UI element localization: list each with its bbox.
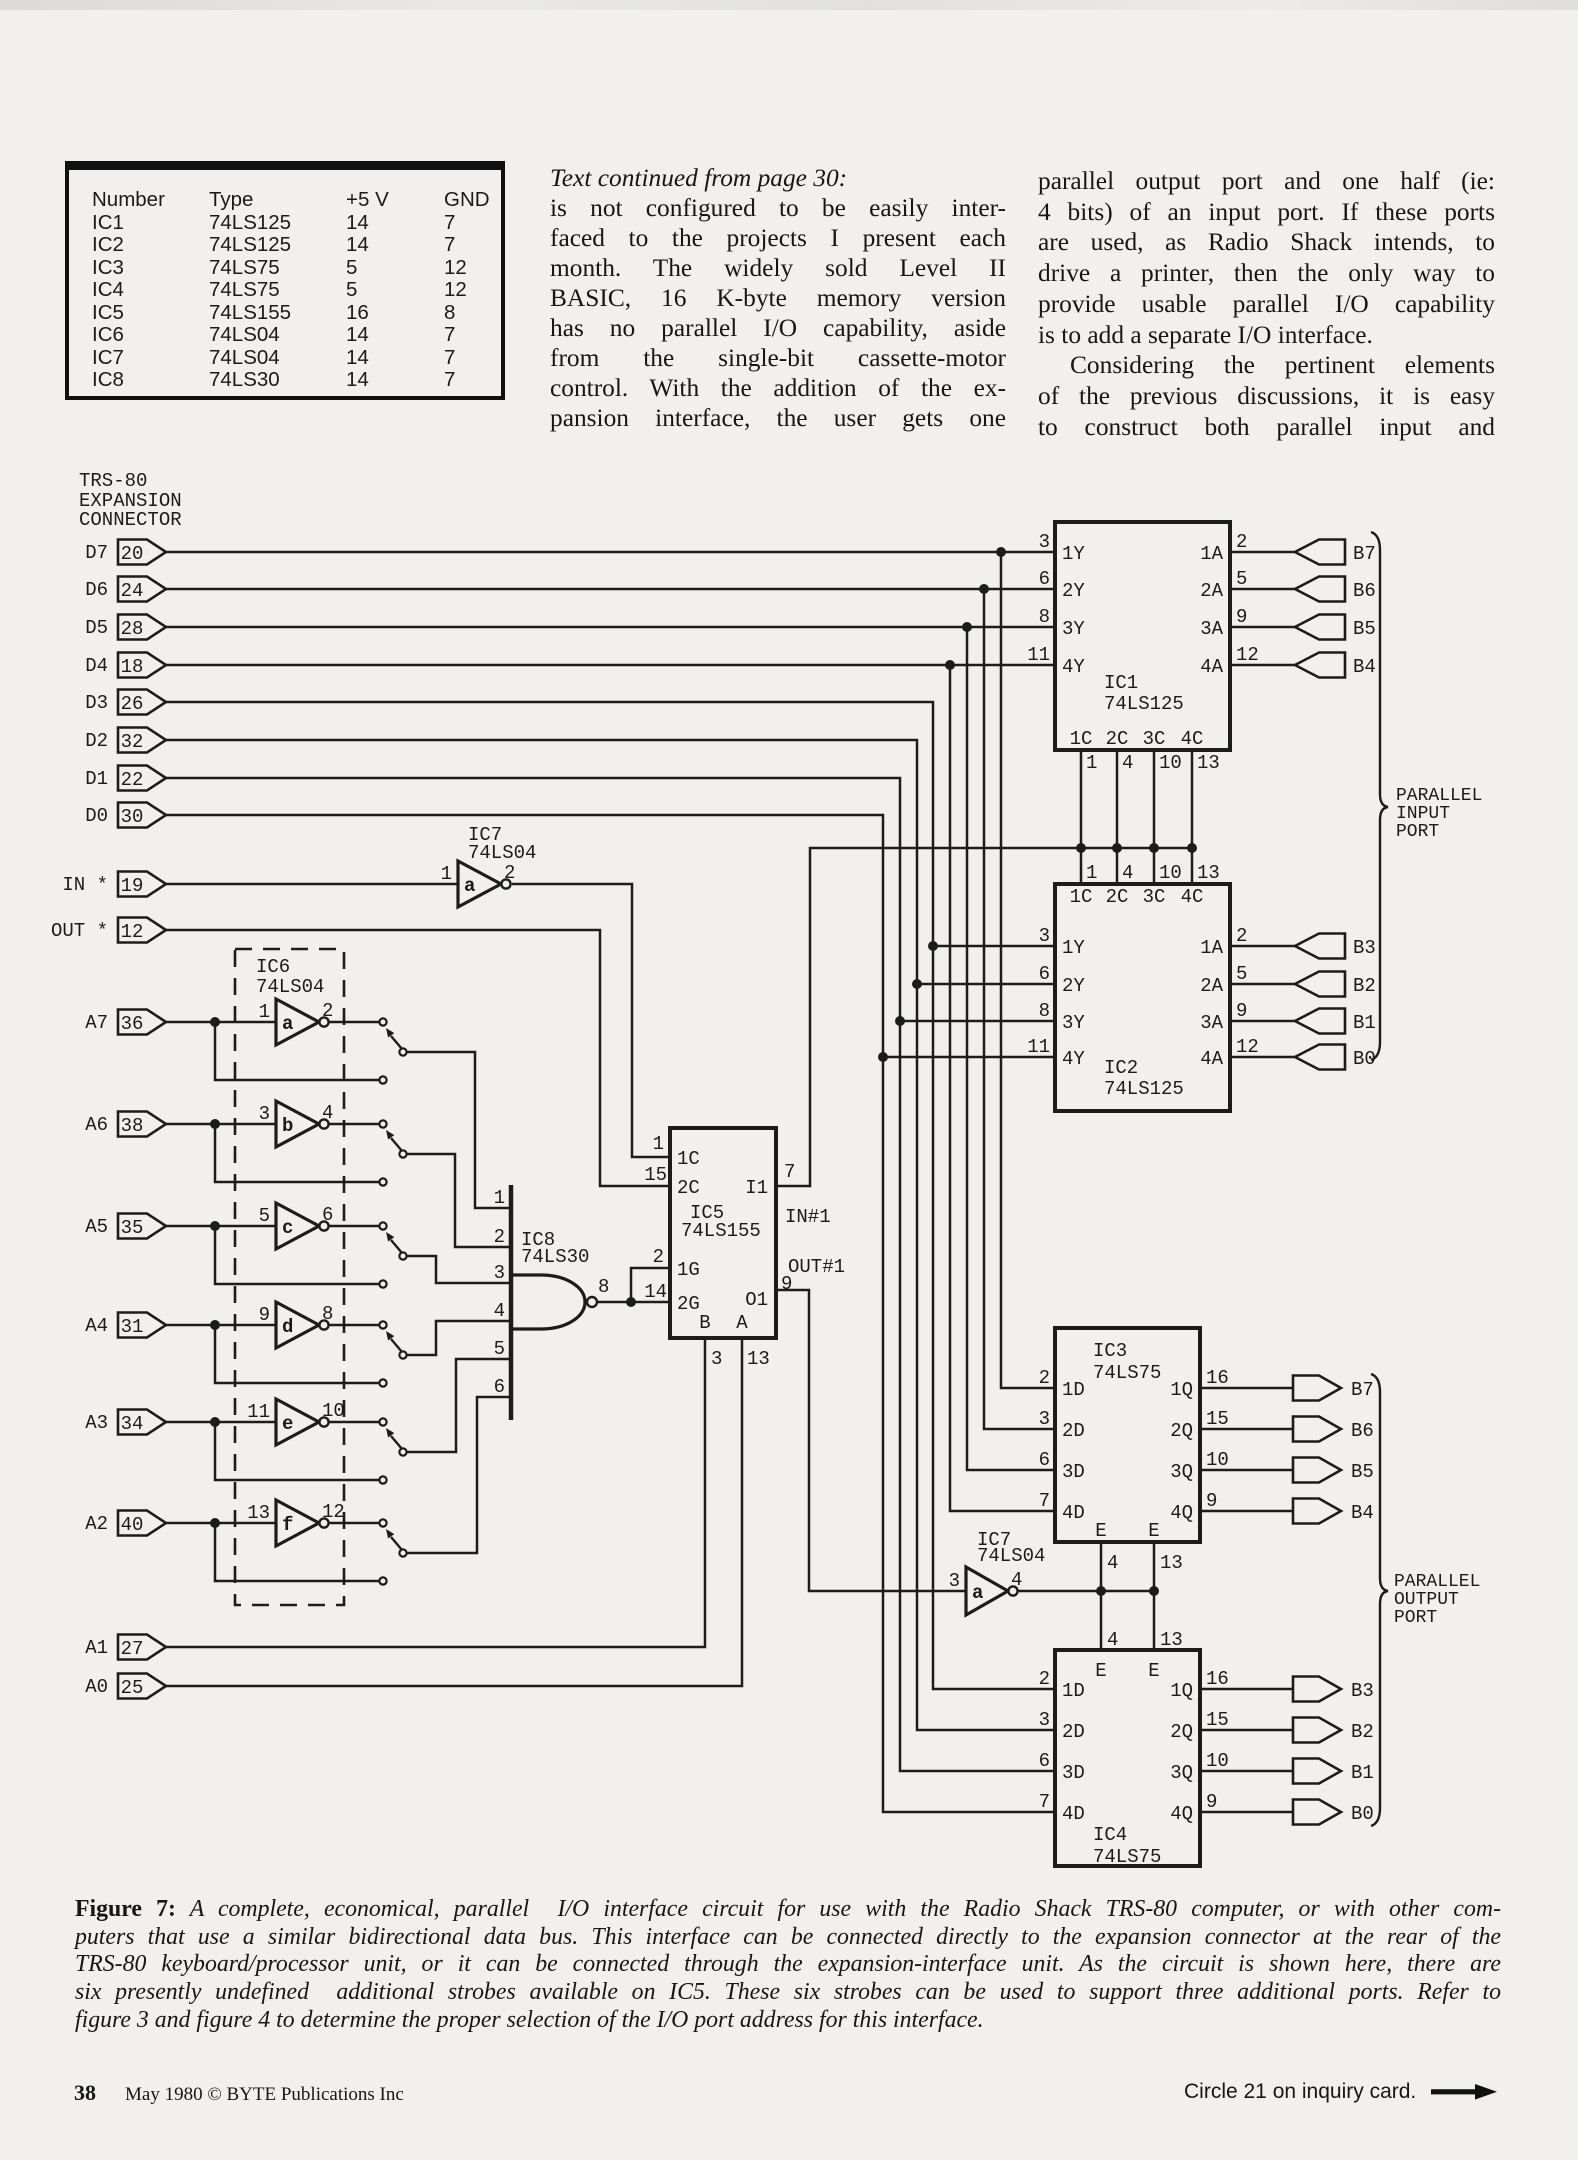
switch SA4 (select true/inverted address bit) [379, 1321, 406, 1386]
svg-text:9: 9 [1236, 606, 1247, 628]
svg-text:13: 13 [1197, 752, 1220, 774]
svg-text:2Q: 2Q [1170, 1420, 1193, 1442]
svg-text:D0: D0 [85, 805, 108, 827]
inverter IC7b (74LS04 section a, pins 3-4) [949, 1529, 1046, 1615]
svg-text:E: E [1095, 1660, 1106, 1682]
svg-text:2C: 2C [1106, 886, 1129, 908]
svg-text:D7: D7 [85, 542, 108, 564]
svg-text:c: c [282, 1217, 293, 1239]
svg-text:74LS75: 74LS75 [1093, 1362, 1161, 1384]
svg-text:24: 24 [121, 580, 144, 602]
svg-text:B4: B4 [1353, 656, 1376, 678]
svg-text:12: 12 [322, 1501, 345, 1523]
svg-text:1Y: 1Y [1062, 937, 1085, 959]
wire switch A6 common to IC8 pin 2 [406, 1154, 511, 1247]
svg-text:74LS04: 74LS04 [256, 976, 324, 998]
svg-text:10: 10 [322, 1400, 345, 1422]
svg-text:28: 28 [121, 618, 144, 640]
footer arrow [1431, 2082, 1501, 2107]
svg-text:4: 4 [1122, 862, 1133, 884]
net D6: connector to IC1 2Y and IC3 2D [166, 584, 1055, 1429]
svg-text:4: 4 [1011, 1569, 1022, 1591]
svg-text:74LS125: 74LS125 [1104, 693, 1184, 715]
switch SA3 (select true/inverted address bit) [379, 1418, 406, 1483]
svg-text:22: 22 [121, 769, 144, 791]
svg-text:3C: 3C [1143, 886, 1166, 908]
connector D6 pin 24 [85, 577, 166, 603]
wire IC4 4Q to B0 [1200, 1811, 1293, 1814]
svg-text:d: d [282, 1316, 293, 1338]
connector D4 pin 18 [85, 653, 166, 679]
svg-text:2A: 2A [1200, 975, 1223, 997]
wire IC4 3Q to B1 [1200, 1770, 1293, 1773]
svg-text:2: 2 [653, 1246, 664, 1268]
svg-text:74LS04: 74LS04 [468, 842, 536, 864]
switch SA2 (select true/inverted address bit) [379, 1519, 406, 1584]
inverter IC6b (74LS04 section b) [259, 1101, 334, 1147]
IC3 74LS75 (quad latch) [1039, 1328, 1229, 1542]
svg-text:74LS04: 74LS04 [977, 1545, 1045, 1567]
IC4 74LS75 (quad latch) [1039, 1650, 1229, 1868]
svg-text:5: 5 [259, 1205, 270, 1227]
svg-text:INPUT: INPUT [1396, 804, 1450, 824]
wire IC4 2Q to B2 [1200, 1729, 1293, 1732]
svg-text:74LS155: 74LS155 [681, 1220, 761, 1242]
connector D2 pin 32 [85, 728, 166, 754]
svg-text:4Y: 4Y [1062, 1048, 1085, 1070]
svg-text:IC6: IC6 [256, 956, 290, 978]
right text column [1038, 166, 1495, 442]
svg-text:B6: B6 [1353, 580, 1376, 602]
svg-text:B1: B1 [1353, 1012, 1376, 1034]
svg-text:4Y: 4Y [1062, 656, 1085, 678]
net A5: connector to inverter IC6c and bypass [166, 1221, 379, 1284]
net D2: connector to IC2 2Y and IC4 2D [166, 740, 1055, 1730]
svg-text:TRS-80: TRS-80 [79, 470, 147, 492]
net IC8 output to IC5 pins 14 (2G) and 2 (1G) [598, 1268, 670, 1307]
net D1: connector to IC2 3Y and IC4 3D [166, 778, 1055, 1771]
wire switch A7 common to IC8 pin 1 [406, 1052, 511, 1208]
net IN*-inverted to IC5 pin 1 (1C) [512, 884, 670, 1157]
svg-text:4D: 4D [1062, 1803, 1085, 1825]
svg-text:OUT *: OUT * [51, 920, 108, 942]
wire IC1 4A to B4 [1230, 664, 1295, 667]
svg-text:f: f [282, 1514, 293, 1536]
svg-text:2C: 2C [1106, 728, 1129, 750]
svg-text:15: 15 [644, 1164, 667, 1186]
svg-text:35: 35 [121, 1217, 144, 1239]
figure caption [75, 1896, 1501, 2035]
svg-text:IC1: IC1 [1104, 672, 1138, 694]
connector B1 (parallel input port) [1295, 1009, 1376, 1035]
wire IC3 2Q to B6 [1200, 1428, 1293, 1431]
svg-text:D2: D2 [85, 730, 108, 752]
svg-text:A1: A1 [85, 1637, 108, 1659]
net D3: connector to IC2 1Y and IC4 1D [166, 702, 1055, 1689]
svg-text:1: 1 [1086, 752, 1097, 774]
svg-text:8: 8 [322, 1303, 333, 1325]
svg-text:4: 4 [494, 1300, 505, 1322]
svg-text:10: 10 [1206, 1750, 1229, 1772]
svg-text:3: 3 [1039, 925, 1050, 947]
svg-text:2Y: 2Y [1062, 975, 1085, 997]
wire IN* connector to inverter IC7a [166, 883, 458, 886]
svg-text:B0: B0 [1351, 1803, 1374, 1825]
net A0 to IC5 pin 13 (A) [166, 1338, 742, 1686]
wire IC2 4A to B0 [1230, 1056, 1295, 1059]
connector B6 (parallel input port) [1295, 577, 1376, 603]
svg-text:1G: 1G [677, 1259, 700, 1281]
svg-text:6: 6 [1039, 568, 1050, 590]
svg-text:A4: A4 [85, 1315, 108, 1337]
svg-text:B5: B5 [1351, 1461, 1374, 1483]
label IN#1 [785, 1206, 831, 1228]
svg-text:9: 9 [1236, 1000, 1247, 1022]
svg-text:2Q: 2Q [1170, 1721, 1193, 1743]
wire IC3 3Q to B5 [1200, 1469, 1293, 1472]
svg-text:IN *: IN * [62, 874, 108, 896]
svg-text:3: 3 [1039, 531, 1050, 553]
svg-text:1: 1 [653, 1133, 664, 1155]
connector D3 pin 26 [85, 690, 166, 716]
svg-text:4A: 4A [1200, 1048, 1223, 1070]
IC5 74LS155 (dual 2-to-4 decoder) [644, 1128, 795, 1370]
svg-text:E: E [1148, 1520, 1159, 1542]
svg-text:1: 1 [1086, 862, 1097, 884]
svg-text:4: 4 [1107, 1552, 1118, 1574]
svg-text:a: a [464, 875, 475, 897]
connector A3 pin 34 [85, 1410, 166, 1436]
svg-text:2: 2 [1236, 531, 1247, 553]
label PARALLEL OUTPUT PORT [1394, 1572, 1480, 1628]
footer inquiry [1184, 2080, 1416, 2104]
wire switch A4 common to IC8 pin 4 [406, 1321, 511, 1355]
svg-text:4: 4 [1107, 1629, 1118, 1651]
connector D5 pin 28 [85, 615, 166, 641]
svg-text:B1: B1 [1351, 1762, 1374, 1784]
svg-text:4C: 4C [1181, 886, 1204, 908]
label IC6 74LS04 [256, 956, 324, 998]
net D5: connector to IC1 3Y and IC3 3D [166, 622, 1055, 1470]
scanned page top edge shading [0, 0, 1578, 10]
svg-text:D5: D5 [85, 617, 108, 639]
svg-text:A5: A5 [85, 1216, 108, 1238]
connector B0 (parallel output port) [1293, 1800, 1374, 1826]
connector B7 (parallel input port) [1295, 540, 1376, 566]
connector B5 (parallel output port) [1293, 1458, 1374, 1484]
svg-text:4Q: 4Q [1170, 1502, 1193, 1524]
svg-text:12: 12 [1236, 1036, 1259, 1058]
svg-text:12: 12 [121, 921, 144, 943]
svg-text:PARALLEL: PARALLEL [1396, 786, 1482, 806]
svg-text:3D: 3D [1062, 1461, 1085, 1483]
connector B0 (parallel input port) [1295, 1045, 1376, 1071]
switch SA6 (select true/inverted address bit) [379, 1120, 406, 1185]
net D7: connector to IC1 1Y and IC3 1D [166, 547, 1055, 1388]
svg-text:5: 5 [494, 1338, 505, 1360]
connector B4 (parallel output port) [1293, 1499, 1374, 1525]
net A7: connector to inverter IC6a and bypass [166, 1017, 379, 1080]
connector B2 (parallel output port) [1293, 1718, 1374, 1744]
wire IC1 1A to B7 [1230, 551, 1295, 554]
svg-text:13: 13 [1160, 1629, 1183, 1651]
svg-text:D3: D3 [85, 692, 108, 714]
inverter IC6c (74LS04 section c) [259, 1203, 334, 1249]
svg-text:1Q: 1Q [1170, 1680, 1193, 1702]
wire switch A5 common to IC8 pin 3 [406, 1256, 511, 1283]
svg-text:3: 3 [494, 1262, 505, 1284]
svg-text:1A: 1A [1200, 543, 1223, 565]
svg-text:PARALLEL: PARALLEL [1394, 1572, 1480, 1592]
svg-text:74LS125: 74LS125 [1104, 1078, 1184, 1100]
svg-text:2D: 2D [1062, 1721, 1085, 1743]
label OUT#1 [788, 1256, 845, 1278]
svg-text:1C: 1C [1070, 886, 1093, 908]
svg-text:8: 8 [1039, 1000, 1050, 1022]
svg-text:IC3: IC3 [1093, 1340, 1127, 1362]
svg-text:3A: 3A [1200, 618, 1223, 640]
connector A1 pin 27 [85, 1635, 166, 1661]
svg-text:2D: 2D [1062, 1420, 1085, 1442]
svg-text:2C: 2C [677, 1177, 700, 1199]
svg-text:E: E [1148, 1660, 1159, 1682]
svg-text:4C: 4C [1181, 728, 1204, 750]
svg-text:3: 3 [949, 1570, 960, 1592]
svg-text:1A: 1A [1200, 937, 1223, 959]
svg-text:40: 40 [121, 1514, 144, 1536]
svg-text:13: 13 [747, 1348, 770, 1370]
svg-text:1Q: 1Q [1170, 1379, 1193, 1401]
svg-text:16: 16 [1206, 1668, 1229, 1690]
net A6: connector to inverter IC6b and bypass [166, 1119, 379, 1182]
svg-text:3A: 3A [1200, 1012, 1223, 1034]
net A2: connector to inverter IC6f and bypass [166, 1518, 379, 1581]
svg-text:2G: 2G [677, 1293, 700, 1315]
svg-text:E: E [1095, 1520, 1106, 1542]
net OUT* to IC5 pin 15 (2C) [166, 930, 670, 1186]
svg-text:B7: B7 [1353, 543, 1376, 565]
connector B6 (parallel output port) [1293, 1417, 1374, 1443]
svg-text:4A: 4A [1200, 656, 1223, 678]
svg-text:14: 14 [644, 1281, 667, 1303]
switch SA7 (select true/inverted address bit) [379, 1018, 406, 1083]
svg-text:4: 4 [322, 1102, 333, 1124]
svg-text:7: 7 [784, 1161, 795, 1183]
svg-text:B3: B3 [1351, 1680, 1374, 1702]
label TRS-80 expansion connector [79, 470, 182, 531]
wire IC2 3A to B1 [1230, 1020, 1295, 1023]
svg-text:B4: B4 [1351, 1502, 1374, 1524]
brace parallel input port [1371, 532, 1388, 1060]
svg-text:15: 15 [1206, 1408, 1229, 1430]
svg-text:11: 11 [1027, 644, 1050, 666]
svg-text:34: 34 [121, 1413, 144, 1435]
svg-text:2: 2 [494, 1226, 505, 1248]
svg-text:18: 18 [121, 656, 144, 678]
svg-text:A0: A0 [85, 1676, 108, 1698]
svg-text:B6: B6 [1351, 1420, 1374, 1442]
svg-text:IN#1: IN#1 [785, 1206, 831, 1228]
wire IC2 2A to B2 [1230, 983, 1295, 986]
svg-text:2: 2 [1039, 1668, 1050, 1690]
svg-text:1: 1 [494, 1187, 505, 1209]
svg-text:a: a [282, 1013, 293, 1035]
svg-text:3Y: 3Y [1062, 618, 1085, 640]
brace parallel output port [1371, 1374, 1388, 1826]
svg-text:D6: D6 [85, 579, 108, 601]
svg-text:IC2: IC2 [1104, 1057, 1138, 1079]
svg-text:26: 26 [121, 693, 144, 715]
svg-text:A6: A6 [85, 1114, 108, 1136]
svg-text:7: 7 [1039, 1490, 1050, 1512]
svg-text:3Y: 3Y [1062, 1012, 1085, 1034]
svg-text:8: 8 [598, 1276, 609, 1298]
wire IC3 4Q to B4 [1200, 1510, 1293, 1513]
svg-text:B2: B2 [1351, 1721, 1374, 1743]
net D0: connector to IC2 4Y and IC4 4D [166, 815, 1055, 1812]
svg-text:13: 13 [1197, 862, 1220, 884]
connector B3 (parallel input port) [1295, 934, 1376, 960]
svg-text:8: 8 [1039, 606, 1050, 628]
inverter IC6f (74LS04 section f) [247, 1500, 345, 1546]
svg-text:e: e [282, 1413, 293, 1435]
svg-text:3: 3 [1039, 1408, 1050, 1430]
svg-text:B: B [699, 1312, 710, 1334]
connector B2 (parallel input port) [1295, 972, 1376, 998]
inverter IC6e (74LS04 section e) [247, 1399, 345, 1445]
svg-text:PORT: PORT [1396, 822, 1439, 842]
svg-text:3Q: 3Q [1170, 1461, 1193, 1483]
svg-text:b: b [282, 1115, 293, 1137]
svg-text:12: 12 [1236, 644, 1259, 666]
svg-text:1C: 1C [677, 1148, 700, 1170]
svg-text:1D: 1D [1062, 1680, 1085, 1702]
svg-text:3: 3 [1039, 1709, 1050, 1731]
NAND gate IC8 74LS30 (8-input) [494, 1185, 610, 1420]
svg-text:2: 2 [1039, 1367, 1050, 1389]
net A4: connector to inverter IC6d and bypass [166, 1320, 379, 1383]
svg-text:5: 5 [1236, 568, 1247, 590]
footer page number [74, 2080, 96, 2106]
svg-text:6: 6 [1039, 1449, 1050, 1471]
svg-text:A: A [736, 1312, 748, 1334]
svg-text:3: 3 [711, 1348, 722, 1370]
connector D1 pin 22 [85, 766, 166, 792]
switch SA5 (select true/inverted address bit) [379, 1222, 406, 1287]
svg-text:3: 3 [259, 1103, 270, 1125]
svg-text:11: 11 [247, 1401, 270, 1423]
svg-text:13: 13 [247, 1502, 270, 1524]
svg-text:36: 36 [121, 1013, 144, 1035]
connector OUT* pin 12 [51, 918, 166, 944]
svg-text:4: 4 [1122, 752, 1133, 774]
svg-text:6: 6 [494, 1376, 505, 1398]
connector A2 pin 40 [85, 1511, 166, 1537]
connector B5 (parallel input port) [1295, 615, 1376, 641]
svg-text:B7: B7 [1351, 1379, 1374, 1401]
connector D0 pin 30 [85, 803, 166, 829]
svg-text:1: 1 [259, 1001, 270, 1023]
wire switch A2 common to IC8 pin 6 [406, 1397, 511, 1553]
svg-text:1Y: 1Y [1062, 543, 1085, 565]
svg-text:10: 10 [1159, 862, 1182, 884]
svg-text:2: 2 [322, 1000, 333, 1022]
wire IC2 1A to B3 [1230, 945, 1295, 948]
svg-text:CONNECTOR: CONNECTOR [79, 509, 182, 531]
svg-text:13: 13 [1160, 1552, 1183, 1574]
svg-text:25: 25 [121, 1677, 144, 1699]
svg-text:B2: B2 [1353, 975, 1376, 997]
svg-text:10: 10 [1159, 752, 1182, 774]
svg-text:2: 2 [1236, 925, 1247, 947]
svg-text:I1: I1 [745, 1177, 768, 1199]
connector IN* pin 19 [62, 872, 166, 898]
svg-text:3C: 3C [1143, 728, 1166, 750]
label PARALLEL INPUT PORT [1396, 786, 1482, 842]
svg-text:A3: A3 [85, 1412, 108, 1434]
connector A5 pin 35 [85, 1214, 166, 1240]
inverter IC6a (74LS04 section a) [259, 999, 334, 1045]
wire IC4 1Q to B3 [1200, 1688, 1293, 1691]
connector B4 (parallel input port) [1295, 653, 1376, 679]
net A3: connector to inverter IC6e and bypass [166, 1417, 379, 1480]
svg-text:9: 9 [259, 1304, 270, 1326]
svg-text:O1: O1 [745, 1289, 768, 1311]
svg-text:1C: 1C [1070, 728, 1093, 750]
svg-text:27: 27 [121, 1638, 144, 1660]
svg-text:3D: 3D [1062, 1762, 1085, 1784]
svg-text:19: 19 [121, 875, 144, 897]
svg-text:PORT: PORT [1394, 1608, 1437, 1628]
connector B7 (parallel output port) [1293, 1376, 1374, 1402]
wire IC1 3A to B5 [1230, 626, 1295, 629]
connector A6 pin 38 [85, 1112, 166, 1138]
svg-text:10: 10 [1206, 1449, 1229, 1471]
net IC1 C pins to IC2 C pins (tri-state controls) [1081, 750, 1192, 884]
svg-text:OUT#1: OUT#1 [788, 1256, 845, 1278]
svg-text:IC4: IC4 [1093, 1824, 1127, 1846]
svg-text:15: 15 [1206, 1709, 1229, 1731]
net A1 to IC5 pin 3 (B) [166, 1338, 705, 1647]
svg-text:4Q: 4Q [1170, 1803, 1193, 1825]
svg-text:5: 5 [1236, 963, 1247, 985]
svg-text:2Y: 2Y [1062, 580, 1085, 602]
connector B3 (parallel output port) [1293, 1677, 1374, 1703]
svg-text:D1: D1 [85, 768, 108, 790]
inverter IC7a (74LS04 section a) [441, 824, 537, 907]
IC2 74LS125 (quad 3-state buffer) [1027, 862, 1259, 1111]
connector A4 pin 31 [85, 1313, 166, 1339]
svg-text:7: 7 [1039, 1791, 1050, 1813]
net latch enable: IC7b output to E pins of IC3/IC4 [1018, 1542, 1183, 1651]
svg-text:6: 6 [322, 1204, 333, 1226]
svg-text:3Q: 3Q [1170, 1762, 1193, 1784]
svg-text:32: 32 [121, 731, 144, 753]
svg-text:20: 20 [121, 543, 144, 565]
connector D7 pin 20 [85, 540, 166, 566]
svg-text:2A: 2A [1200, 580, 1223, 602]
wire IC3 1Q to B7 [1200, 1387, 1293, 1390]
middle text column [550, 163, 1006, 433]
connector B1 (parallel output port) [1293, 1759, 1374, 1785]
svg-text:6: 6 [1039, 1750, 1050, 1772]
svg-text:2: 2 [504, 862, 515, 884]
net OUT#1: IC5 pin 9 to inverter IC7b [776, 1290, 966, 1591]
svg-text:B5: B5 [1353, 618, 1376, 640]
svg-text:6: 6 [1039, 963, 1050, 985]
svg-text:a: a [972, 1582, 983, 1604]
IC power pin table [65, 161, 505, 400]
